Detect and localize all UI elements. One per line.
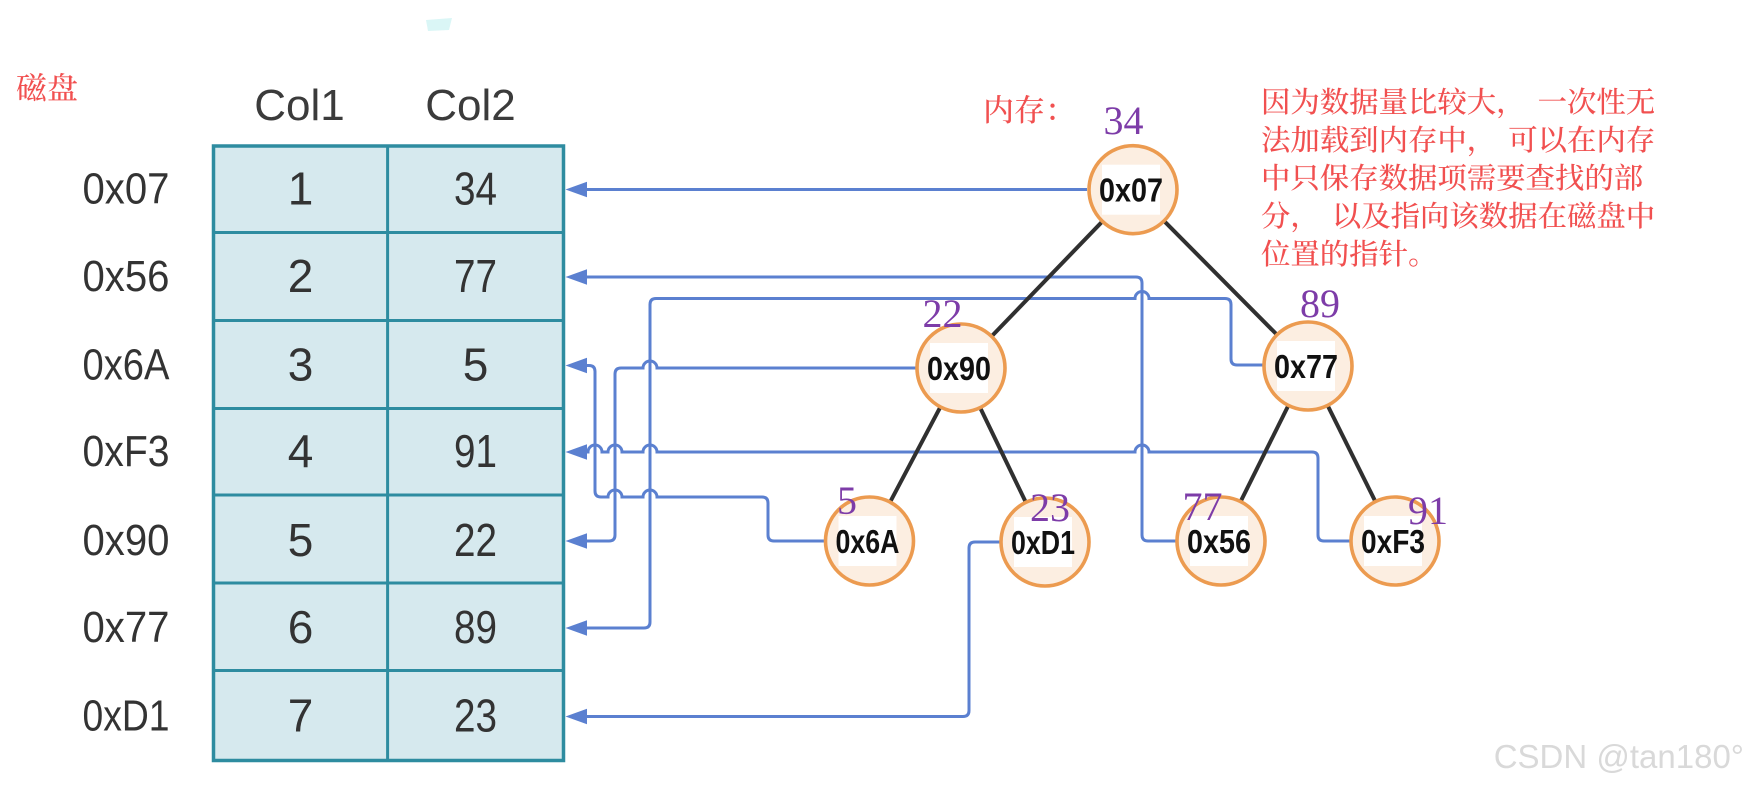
svg-text:0x07: 0x07 bbox=[1099, 172, 1163, 209]
svg-text:23: 23 bbox=[454, 690, 497, 742]
svg-text:22: 22 bbox=[923, 291, 963, 336]
svg-text:0x90: 0x90 bbox=[83, 516, 170, 565]
svg-text:6: 6 bbox=[288, 601, 314, 653]
svg-text:Col2: Col2 bbox=[425, 81, 516, 130]
svg-text:0x07: 0x07 bbox=[83, 165, 170, 214]
svg-text:0x77: 0x77 bbox=[1274, 348, 1338, 385]
svg-text:2: 2 bbox=[288, 250, 314, 302]
svg-text:5: 5 bbox=[288, 514, 314, 566]
svg-text:23: 23 bbox=[1030, 485, 1070, 530]
svg-text:0x56: 0x56 bbox=[83, 252, 170, 301]
svg-text:0xD1: 0xD1 bbox=[83, 692, 170, 741]
svg-text:3: 3 bbox=[288, 339, 314, 391]
svg-text:34: 34 bbox=[454, 163, 497, 215]
svg-text:91: 91 bbox=[454, 425, 497, 477]
svg-text:1: 1 bbox=[288, 163, 314, 215]
svg-text:CSDN @tan180°: CSDN @tan180° bbox=[1494, 738, 1744, 775]
svg-text:0xF3: 0xF3 bbox=[83, 427, 170, 476]
svg-text:91: 91 bbox=[1408, 488, 1448, 533]
svg-text:22: 22 bbox=[454, 514, 497, 566]
svg-text:7: 7 bbox=[288, 690, 314, 742]
svg-text:0x6A: 0x6A bbox=[83, 341, 171, 390]
svg-text:0x6A: 0x6A bbox=[836, 523, 900, 560]
svg-text:34: 34 bbox=[1104, 98, 1144, 143]
svg-text:77: 77 bbox=[454, 250, 497, 302]
svg-text:89: 89 bbox=[454, 601, 497, 653]
svg-text:5: 5 bbox=[463, 339, 489, 391]
svg-text:0x90: 0x90 bbox=[927, 350, 991, 387]
svg-text:77: 77 bbox=[1183, 484, 1223, 529]
svg-text:5: 5 bbox=[837, 478, 857, 523]
svg-text:89: 89 bbox=[1300, 281, 1340, 326]
svg-text:4: 4 bbox=[288, 425, 314, 477]
svg-text:Col1: Col1 bbox=[254, 81, 345, 130]
svg-text:0x77: 0x77 bbox=[83, 603, 170, 652]
